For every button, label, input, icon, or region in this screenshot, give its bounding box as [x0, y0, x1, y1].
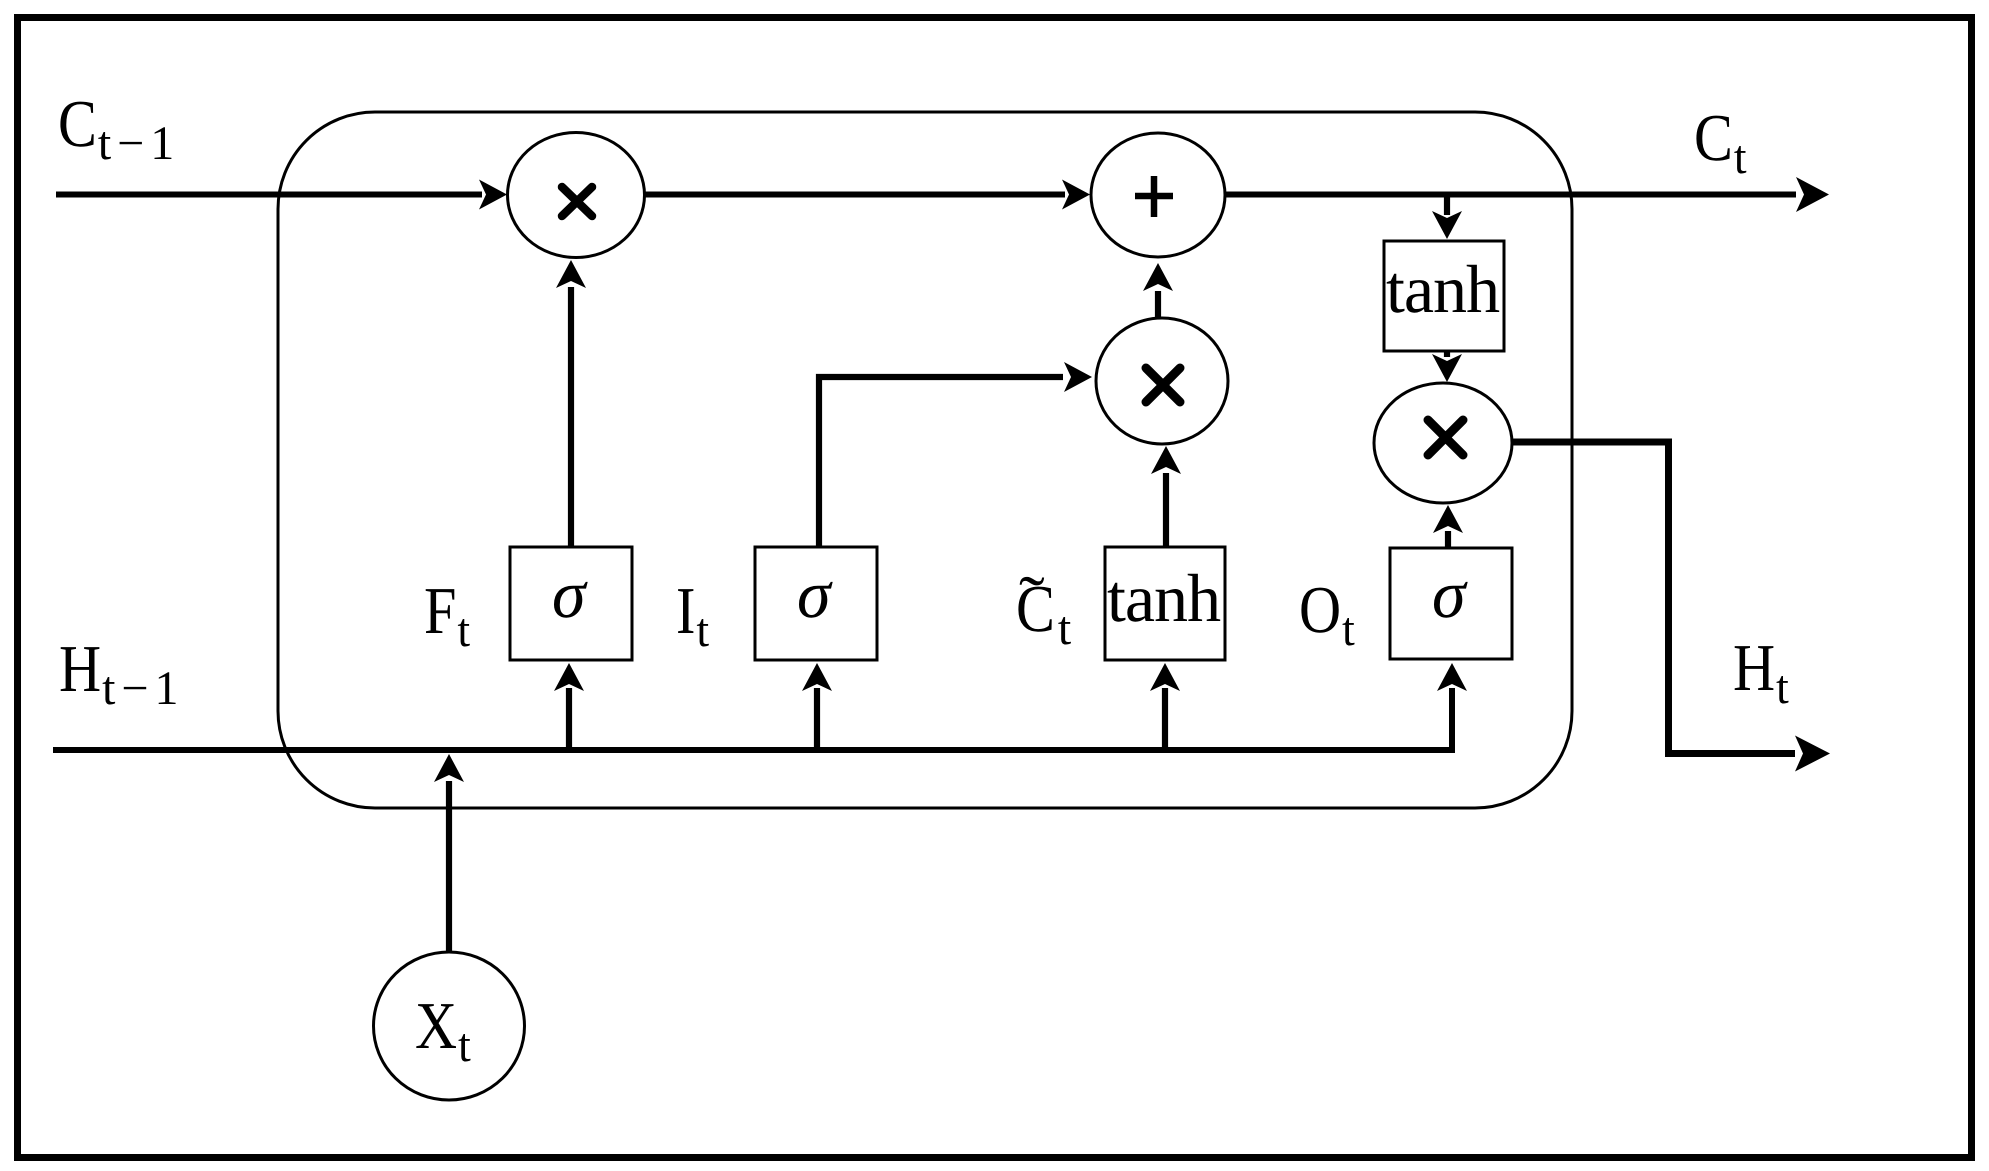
wire Ht-1 input line [53, 688, 1452, 750]
node Ht label [1735, 646, 1789, 703]
wire Ft box to X1 [568, 287, 574, 547]
node It label [678, 589, 709, 646]
arrowhead into Ht-1 line from Xt [434, 754, 464, 782]
wire Ct-1 input line [56, 192, 482, 198]
arrowhead Ht output [1795, 736, 1830, 772]
arrowhead into It box [802, 663, 832, 691]
tanh box right [1384, 241, 1504, 351]
arrowhead into candidate tanh box [1150, 663, 1180, 691]
arrowhead into X1 [556, 260, 586, 288]
wire Xt to Ht-1 line [446, 781, 452, 952]
node Ct-1 label [60, 102, 171, 160]
wire X2 to plus [1155, 291, 1161, 318]
wire It box to X2 [819, 377, 1063, 547]
arrowhead into plus from X2 [1143, 263, 1173, 291]
arrowhead into X3 from Ot [1433, 505, 1463, 533]
multiply node X3 output [1374, 383, 1512, 503]
wire output tanh to X3 [1444, 352, 1450, 357]
arrowhead into Ft box [554, 663, 584, 691]
arrowhead into output tanh [1432, 211, 1462, 239]
input node Xt circle [374, 952, 525, 1100]
node Ft label [426, 589, 470, 646]
wire X1 to plus [645, 192, 1066, 198]
wire Ot box to X3 [1445, 531, 1451, 548]
LSTM cell rounded box [278, 112, 1572, 808]
sigma box Ft [510, 547, 632, 660]
arrowhead Ct output [1796, 177, 1829, 212]
add node plus [1091, 133, 1225, 257]
tanh box candidate [1105, 547, 1225, 660]
sigma box Ot [1390, 548, 1512, 659]
wire Ht-1 to It box [814, 688, 820, 748]
node Ot label [1301, 588, 1354, 646]
multiply node X2 input [1096, 318, 1228, 444]
node Ht-1 label [61, 647, 176, 704]
sigma box It [755, 547, 877, 660]
wire Ht-1 to Ft box [566, 688, 572, 748]
wire branch down to output tanh [1444, 196, 1450, 215]
wire X3 output to Ht [1512, 442, 1795, 754]
node C~t label [1018, 577, 1071, 645]
arrowhead into plus [1062, 180, 1090, 210]
arrowhead into X2 [1064, 362, 1092, 392]
wire candidate tanh box to X2 [1163, 473, 1169, 547]
wire Ht-1 to candidate tanh box [1162, 688, 1168, 748]
arrowhead into X2 from tanh [1151, 446, 1181, 474]
node Ct label [1696, 116, 1746, 174]
wire Ct output line [1225, 192, 1796, 198]
arrowhead into X3 from tanh [1432, 354, 1462, 382]
arrowhead into Ot sigma [1437, 663, 1467, 691]
multiply node X1 forget [508, 133, 645, 258]
arrowhead into forget product [479, 180, 507, 210]
